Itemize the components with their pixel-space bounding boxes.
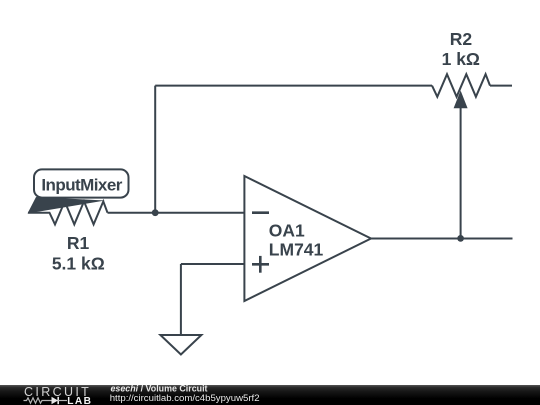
node A (R1 / feedback / inverting input junction) (152, 209, 159, 216)
potentiometer R2 (432, 74, 512, 238)
svg-text:LAB: LAB (67, 396, 92, 405)
wire R1 output to inverting input (108, 212, 246, 214)
svg-text:http://circuitlab.com/c4b5ypyu: http://circuitlab.com/c4b5ypyuw5rf2 (110, 393, 260, 404)
wire op-amp output (371, 238, 513, 240)
wire top feedback (155, 85, 432, 87)
resistor R1 (28, 201, 108, 224)
wire feedback riser (154, 86, 156, 213)
op-amp minus pin symbol (252, 211, 269, 214)
logo resistor zigzag (24, 398, 52, 403)
svg-text:OA1: OA1 (269, 221, 305, 241)
ground (160, 335, 201, 355)
svg-text:InputMixer: InputMixer (41, 176, 122, 195)
node B (output / wiper junction) (457, 235, 464, 242)
logo diode (52, 397, 59, 404)
footer attribution bar (0, 385, 540, 405)
svg-text:LM741: LM741 (269, 240, 324, 260)
wire ground riser (180, 264, 182, 335)
svg-text:1 kΩ: 1 kΩ (442, 49, 480, 69)
svg-text:5.1 kΩ: 5.1 kΩ (52, 254, 105, 274)
op-amp OA1 (244, 176, 371, 301)
flag InputMixer (28, 169, 129, 213)
wire non-inverting input (181, 263, 245, 265)
op-amp plus pin symbol (252, 256, 269, 273)
svg-text:R2: R2 (450, 29, 473, 49)
svg-text:R1: R1 (67, 233, 90, 253)
